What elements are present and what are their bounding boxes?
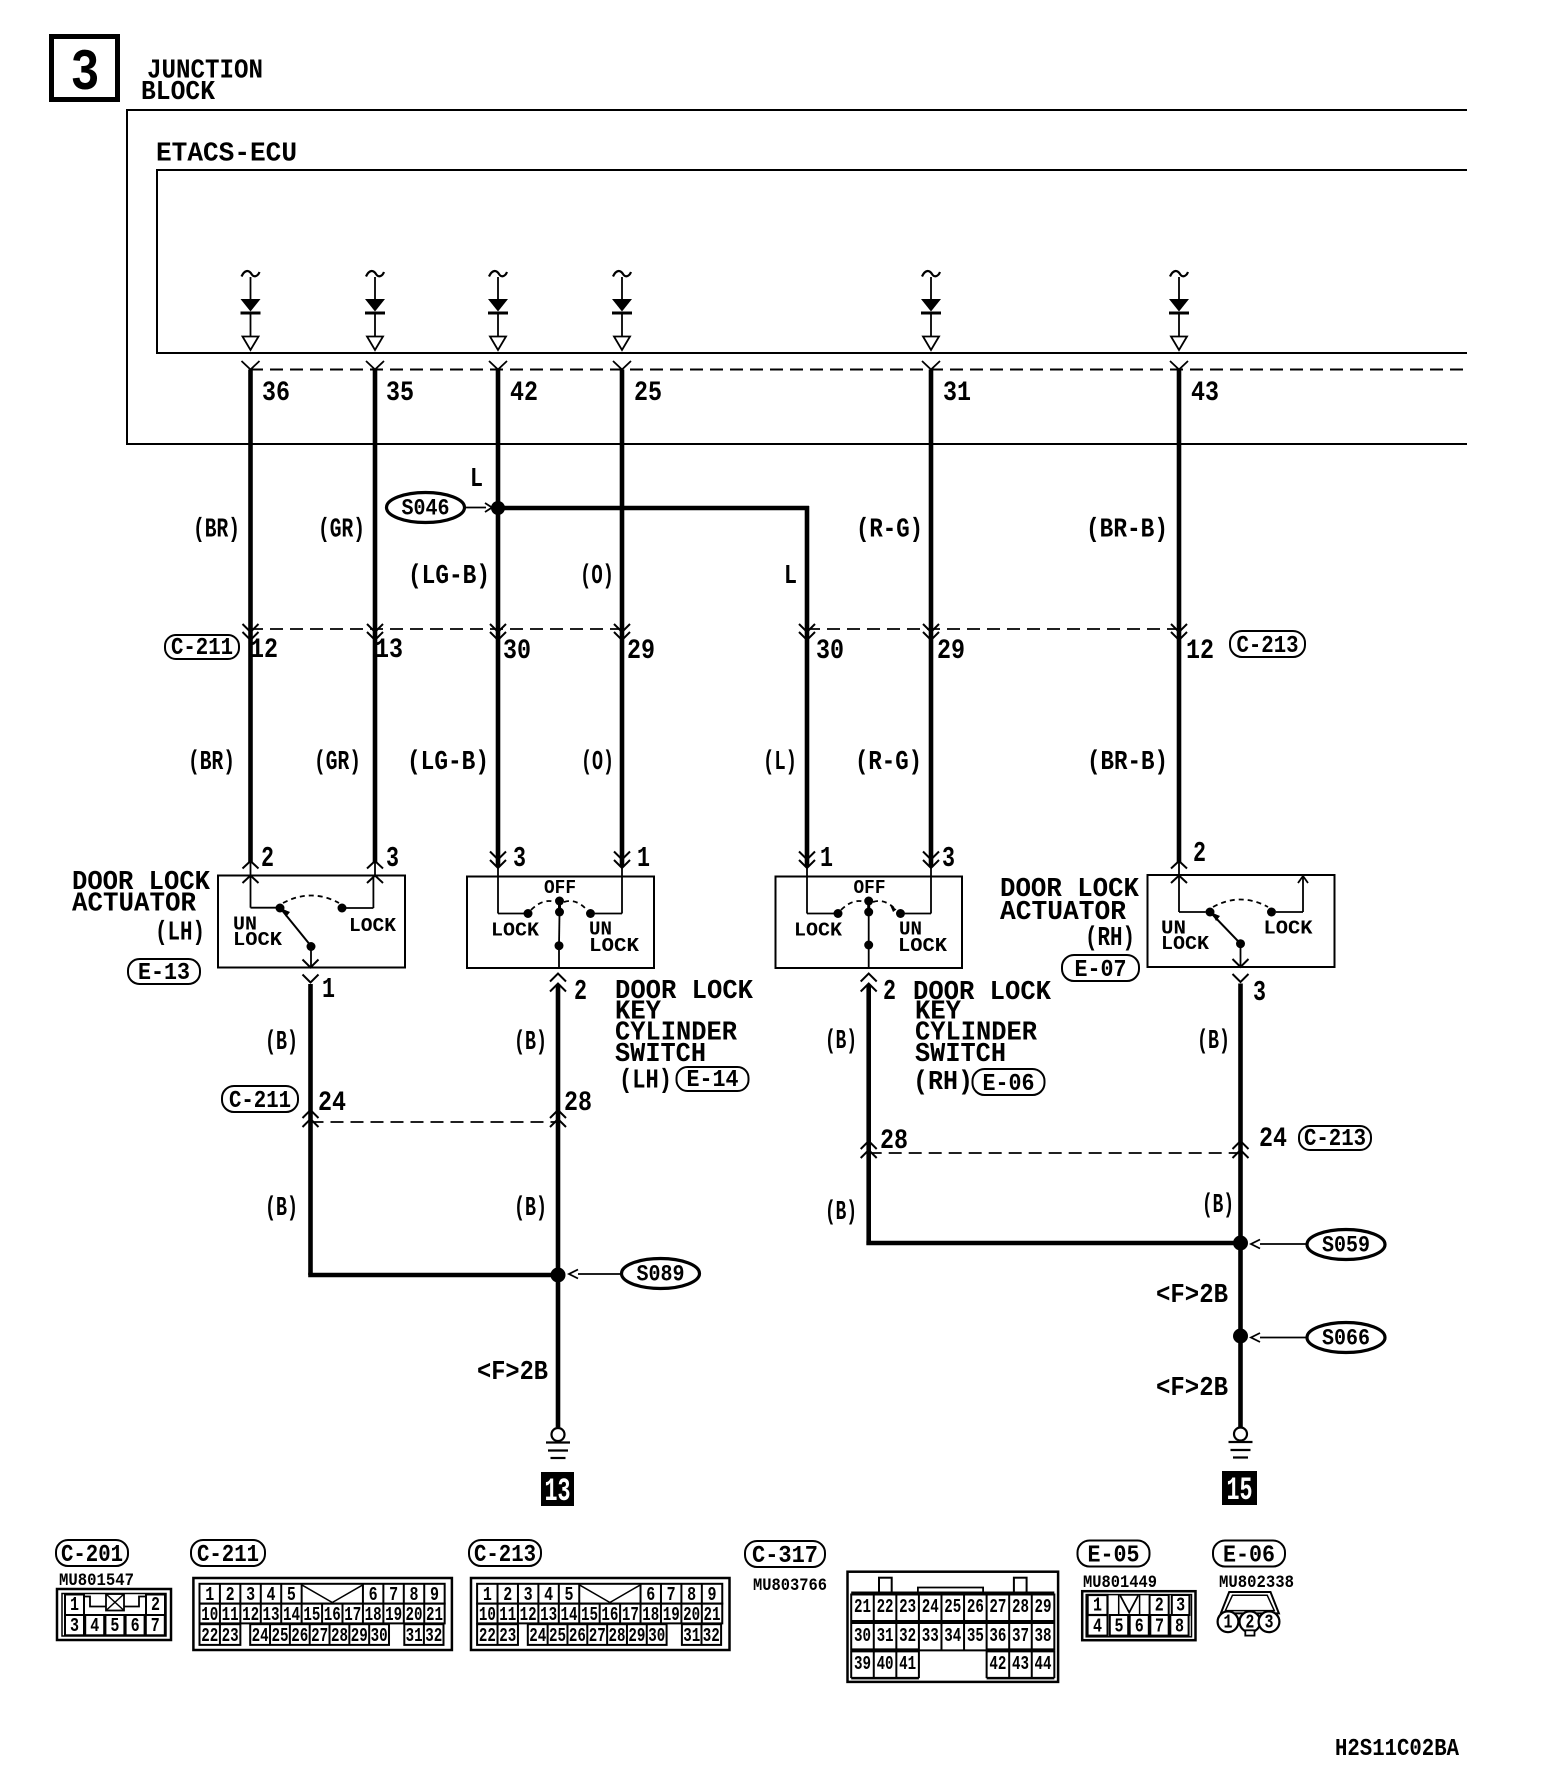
svg-text:(R-G): (R-G) xyxy=(855,748,922,779)
pin 12 label at connector crossing xyxy=(1186,635,1214,667)
svg-text:12: 12 xyxy=(250,634,278,666)
svg-text:4: 4 xyxy=(1093,1616,1102,1638)
wire 42 (LG-B) to LH key cylinder pin 3 xyxy=(489,361,507,877)
svg-text:13: 13 xyxy=(375,634,403,666)
wire LH key cylinder pin 2 (B) xyxy=(550,974,566,1276)
svg-text:LOCK: LOCK xyxy=(1161,934,1209,956)
label MU803766 xyxy=(753,1576,827,1595)
svg-text:ACTUATOR: ACTUATOR xyxy=(72,889,197,920)
svg-text:24: 24 xyxy=(529,1626,546,1648)
svg-text:2: 2 xyxy=(261,842,274,875)
wire LH ground run xyxy=(308,1275,558,1427)
connector label E-06 bottom xyxy=(1213,1541,1285,1570)
pin 3 label RH key cylinder xyxy=(942,842,955,875)
RH actuator switch xyxy=(1179,875,1308,967)
svg-text:C-213: C-213 xyxy=(1304,1125,1366,1152)
svg-text:SWITCH: SWITCH xyxy=(915,1040,1006,1071)
wire RH actuator pin 3 (B) xyxy=(1233,959,1249,1245)
svg-text:E-06: E-06 xyxy=(1223,1542,1275,1569)
svg-text:(LH): (LH) xyxy=(619,1066,672,1097)
svg-text:2: 2 xyxy=(1193,837,1206,870)
svg-text:24: 24 xyxy=(922,1597,939,1619)
label LOCK in LH actuator xyxy=(349,916,396,938)
svg-text:28: 28 xyxy=(564,1087,592,1119)
label (R-G) lower xyxy=(855,748,922,779)
connector label E-13 xyxy=(128,959,200,987)
label DOOR LOCK KEY CYLINDER SWITCH (RH) xyxy=(913,978,1052,1099)
svg-text:23: 23 xyxy=(899,1597,916,1619)
svg-text:3: 3 xyxy=(1253,976,1266,1009)
svg-text:29: 29 xyxy=(1035,1597,1052,1619)
label (BR) upper xyxy=(193,515,240,546)
label (LG-B) lower xyxy=(407,748,489,779)
pin 2 label LH actuator xyxy=(261,842,274,875)
pin 3 label LH actuator xyxy=(386,842,399,875)
label (B) LH-2 xyxy=(514,1028,547,1059)
svg-text:6: 6 xyxy=(131,1616,140,1638)
svg-text:4: 4 xyxy=(90,1616,99,1638)
svg-text:23: 23 xyxy=(222,1626,239,1648)
svg-text:(LG-B): (LG-B) xyxy=(408,562,490,593)
svg-text:1: 1 xyxy=(322,973,335,1006)
label (O) lower xyxy=(581,748,614,779)
svg-text:(BR): (BR) xyxy=(188,748,235,779)
label (L) lower xyxy=(763,748,797,779)
door lock actuator RH box xyxy=(1148,875,1335,967)
splice node S066 dot xyxy=(1233,1329,1248,1344)
svg-text:43: 43 xyxy=(1191,377,1219,409)
diode D2 xyxy=(365,271,385,350)
LH actuator switch xyxy=(251,876,374,968)
pin 25 label xyxy=(634,377,662,409)
pin 28 label lower RH xyxy=(880,1125,908,1157)
svg-text:(B): (B) xyxy=(514,1194,547,1225)
diode D6 xyxy=(1169,271,1189,350)
svg-text:28: 28 xyxy=(880,1125,908,1157)
pin 29 label at connector crossing xyxy=(627,635,655,667)
svg-text:36: 36 xyxy=(989,1626,1006,1648)
label ETACS-ECU xyxy=(156,139,297,170)
diode D5 xyxy=(921,271,941,350)
label DOOR LOCK KEY CYLINDER SWITCH (LH) xyxy=(615,977,754,1097)
label (GR) lower xyxy=(314,748,361,779)
svg-text:(BR-B): (BR-B) xyxy=(1087,748,1168,779)
svg-text:MU802338: MU802338 xyxy=(1219,1573,1294,1592)
svg-text:LOCK: LOCK xyxy=(1264,918,1313,940)
connector label C-213 upper xyxy=(1230,631,1305,660)
svg-text:C-213: C-213 xyxy=(474,1541,536,1568)
svg-text:31: 31 xyxy=(877,1626,894,1648)
svg-text:42: 42 xyxy=(510,377,538,409)
label (BR) lower xyxy=(188,748,235,779)
svg-text:1: 1 xyxy=(70,1595,79,1617)
svg-text:6: 6 xyxy=(1135,1616,1144,1638)
pin 3 label below RH actuator xyxy=(1253,976,1266,1009)
label MU801449 xyxy=(1083,1573,1157,1592)
splice label S066 xyxy=(1251,1323,1385,1353)
svg-text:40: 40 xyxy=(877,1654,894,1676)
pin 42 label xyxy=(510,377,538,409)
svg-text:32: 32 xyxy=(703,1626,720,1648)
svg-text:12: 12 xyxy=(1186,635,1214,667)
splice node S059 dot xyxy=(1233,1236,1248,1251)
pin 43 label xyxy=(1191,377,1219,409)
svg-text:S059: S059 xyxy=(1322,1233,1370,1259)
label (B) RH-1 xyxy=(825,1027,857,1058)
svg-text:2: 2 xyxy=(883,975,896,1008)
svg-text:35: 35 xyxy=(967,1626,984,1648)
svg-text:32: 32 xyxy=(425,1626,442,1648)
wire 43 (BR-B) to RH actuator pin 2 xyxy=(1170,361,1188,883)
pin 24 label lower RH xyxy=(1259,1123,1287,1155)
svg-text:C-211: C-211 xyxy=(229,1087,291,1114)
door lock actuator LH box xyxy=(218,876,405,968)
wire RH ground run xyxy=(866,1243,1240,1427)
svg-text:C-201: C-201 xyxy=(61,1541,123,1568)
pin 30 label at connector crossing xyxy=(503,635,531,667)
svg-text:30: 30 xyxy=(503,635,531,667)
pin 2 label below LH key cylinder xyxy=(574,975,587,1008)
svg-text:25: 25 xyxy=(634,377,662,409)
svg-text:ETACS-ECU: ETACS-ECU xyxy=(156,139,297,170)
svg-text:26: 26 xyxy=(291,1626,308,1648)
svg-text:1: 1 xyxy=(1224,1612,1233,1634)
pin 35 label xyxy=(386,377,414,409)
label (B) RH-3 xyxy=(825,1198,857,1229)
svg-text:MU801547: MU801547 xyxy=(59,1571,134,1590)
pin 30 label at connector crossing xyxy=(816,635,844,667)
connector label C-213 bottom xyxy=(469,1540,541,1569)
pin 28 label lower LH xyxy=(564,1087,592,1119)
wire 36 (BR) to LH actuator pin 2 xyxy=(242,361,260,883)
pin 12 label at connector crossing xyxy=(250,634,278,666)
svg-text:3: 3 xyxy=(513,842,526,875)
svg-text:44: 44 xyxy=(1035,1654,1052,1676)
label LOCK in RH key cylinder xyxy=(794,920,842,942)
svg-text:1: 1 xyxy=(820,842,833,875)
svg-text:22: 22 xyxy=(877,1597,894,1619)
connector C-213 dashed line upper xyxy=(807,628,1179,630)
svg-text:26: 26 xyxy=(569,1626,586,1648)
svg-text:27: 27 xyxy=(589,1626,606,1648)
svg-text:2: 2 xyxy=(574,975,587,1008)
svg-text:2: 2 xyxy=(1155,1595,1164,1617)
svg-text:(BR-B): (BR-B) xyxy=(1086,515,1168,546)
pin 2 label RH actuator xyxy=(1193,837,1206,870)
label L mid xyxy=(784,562,797,593)
connector label C-211 upper xyxy=(165,634,239,661)
pin 29 label at connector crossing xyxy=(937,635,965,667)
splice label S046 xyxy=(387,493,493,523)
svg-text:29: 29 xyxy=(351,1626,368,1648)
label (O) upper xyxy=(580,562,614,593)
label (GR) upper xyxy=(318,515,365,546)
pin 13 label at connector crossing xyxy=(375,634,403,666)
svg-text:27: 27 xyxy=(989,1597,1006,1619)
svg-text:2: 2 xyxy=(151,1595,160,1617)
svg-text:22: 22 xyxy=(479,1626,496,1648)
label LOCK in LH key cylinder xyxy=(491,920,539,942)
svg-text:(B): (B) xyxy=(825,1198,857,1229)
connector C-317 pinout xyxy=(848,1572,1059,1682)
svg-text:1: 1 xyxy=(1093,1595,1102,1617)
index box 3 xyxy=(52,37,118,107)
svg-text:L: L xyxy=(470,465,483,496)
label (BR-B) lower xyxy=(1087,748,1168,779)
drawing number H2S11C02BA xyxy=(1335,1736,1459,1763)
svg-text:27: 27 xyxy=(311,1626,328,1648)
svg-text:30: 30 xyxy=(371,1626,388,1648)
svg-text:<F>2B: <F>2B xyxy=(1156,1374,1228,1405)
svg-text:28: 28 xyxy=(331,1626,348,1648)
connector label E-05 xyxy=(1078,1541,1150,1570)
svg-text:42: 42 xyxy=(989,1654,1006,1676)
connector label E-14 xyxy=(677,1066,749,1093)
svg-text:BLOCK: BLOCK xyxy=(141,78,216,109)
label <F>2B LH xyxy=(477,1358,548,1389)
svg-text:5: 5 xyxy=(1115,1616,1124,1638)
svg-text:C-211: C-211 xyxy=(197,1541,259,1568)
svg-text:(L): (L) xyxy=(763,748,797,779)
pin 1 label LH key cylinder xyxy=(637,842,650,875)
label (R-G) upper xyxy=(856,515,923,546)
svg-text:(B): (B) xyxy=(825,1027,857,1058)
svg-text:39: 39 xyxy=(854,1654,871,1676)
pin 36 label xyxy=(262,377,290,409)
svg-text:<F>2B: <F>2B xyxy=(477,1358,548,1389)
ETACS-ECU box xyxy=(157,170,1467,353)
pin 1 label RH key cylinder xyxy=(820,842,833,875)
svg-text:33: 33 xyxy=(922,1626,939,1648)
splice label S089 xyxy=(569,1259,700,1289)
label (LG-B) upper xyxy=(408,562,490,593)
svg-text:(RH): (RH) xyxy=(1085,924,1135,955)
label UN LOCK in LH actuator xyxy=(233,914,282,951)
svg-text:E-13: E-13 xyxy=(138,959,190,986)
svg-text:E-05: E-05 xyxy=(1088,1542,1140,1569)
svg-text:31: 31 xyxy=(683,1626,700,1648)
door lock key cylinder switch RH box xyxy=(776,877,963,969)
label (B) RH-2 xyxy=(1197,1027,1230,1058)
connector C-201 pinout xyxy=(57,1589,171,1640)
svg-text:30: 30 xyxy=(854,1626,871,1648)
LH key cylinder switch contacts xyxy=(498,877,622,969)
svg-text:(GR): (GR) xyxy=(314,748,361,779)
wire LH actuator pin 1 (B) xyxy=(303,960,319,1276)
svg-text:(B): (B) xyxy=(265,1028,298,1059)
svg-text:C-317: C-317 xyxy=(752,1542,818,1569)
connector C-213 pinout xyxy=(471,1578,730,1650)
svg-text:3: 3 xyxy=(386,842,399,875)
svg-text:OFF: OFF xyxy=(854,878,886,900)
label DOOR LOCK ACTUATOR (LH) xyxy=(72,868,211,949)
svg-text:3: 3 xyxy=(71,40,100,107)
label <F>2B RH upper xyxy=(1156,1281,1228,1312)
svg-text:30: 30 xyxy=(648,1626,665,1648)
svg-text:29: 29 xyxy=(627,635,655,667)
svg-text:8: 8 xyxy=(1175,1616,1184,1638)
svg-text:35: 35 xyxy=(386,377,414,409)
label JUNCTION BLOCK xyxy=(141,56,263,108)
svg-text:43: 43 xyxy=(1012,1654,1029,1676)
svg-text:(R-G): (R-G) xyxy=(856,515,923,546)
svg-text:LOCK: LOCK xyxy=(589,936,639,958)
svg-text:3: 3 xyxy=(1265,1612,1274,1634)
svg-text:C-213: C-213 xyxy=(1237,632,1299,659)
svg-text:(O): (O) xyxy=(581,748,614,779)
wire 25 (O) to LH key cylinder pin 1 xyxy=(613,361,631,877)
svg-text:MU801449: MU801449 xyxy=(1083,1573,1157,1592)
svg-text:25: 25 xyxy=(271,1626,288,1648)
RH key cylinder switch contacts xyxy=(807,877,931,969)
svg-text:LOCK: LOCK xyxy=(233,930,282,952)
svg-text:37: 37 xyxy=(1012,1626,1029,1648)
svg-text:(RH): (RH) xyxy=(913,1068,973,1099)
svg-text:<F>2B: <F>2B xyxy=(1156,1281,1228,1312)
label (B) LH-3 xyxy=(265,1194,298,1225)
label MU802338 xyxy=(1219,1573,1294,1592)
svg-text:3: 3 xyxy=(1176,1595,1185,1617)
connector label C-201 xyxy=(56,1540,128,1569)
connector C-213 dashed line lower xyxy=(869,1152,1241,1154)
svg-text:(LG-B): (LG-B) xyxy=(407,748,489,779)
svg-text:(B): (B) xyxy=(265,1194,298,1225)
ETACS-ECU output bus (dashed) xyxy=(250,369,1467,371)
ground G2 xyxy=(1229,1428,1253,1458)
svg-text:(B): (B) xyxy=(1202,1191,1234,1222)
connector C-211 dashed line upper xyxy=(250,628,622,630)
svg-text:(O): (O) xyxy=(580,562,614,593)
svg-text:3: 3 xyxy=(70,1616,79,1638)
svg-text:7: 7 xyxy=(151,1616,160,1638)
svg-text:25: 25 xyxy=(549,1626,566,1648)
svg-text:3: 3 xyxy=(942,842,955,875)
svg-text:L: L xyxy=(784,562,797,593)
label DOOR LOCK ACTUATOR (RH) xyxy=(1000,875,1140,955)
svg-text:(B): (B) xyxy=(514,1028,547,1059)
connector C-211 pinout xyxy=(193,1578,452,1650)
svg-text:34: 34 xyxy=(944,1626,961,1648)
pin 3 label LH key cylinder xyxy=(513,842,526,875)
pin 31 label xyxy=(943,377,971,409)
svg-text:LOCK: LOCK xyxy=(794,920,842,942)
door lock key cylinder switch LH box xyxy=(467,877,654,969)
connector label C-317 xyxy=(745,1541,825,1570)
connector label E-07 xyxy=(1062,955,1139,984)
ground G1 xyxy=(546,1428,570,1458)
wire L from S046 to RH key cylinder pin 1 xyxy=(496,506,815,877)
svg-text:23: 23 xyxy=(499,1626,516,1648)
svg-text:E-14: E-14 xyxy=(687,1066,739,1093)
connector E-06 pinout xyxy=(1218,1592,1280,1636)
label (B) RH-4 xyxy=(1202,1191,1234,1222)
pin 2 label below RH key cylinder xyxy=(883,975,896,1008)
svg-text:28: 28 xyxy=(1012,1597,1029,1619)
splice node S046 junction dot xyxy=(491,501,505,515)
svg-text:31: 31 xyxy=(943,377,971,409)
svg-text:S066: S066 xyxy=(1322,1326,1370,1352)
splice node S089 dot xyxy=(551,1268,566,1283)
svg-text:S089: S089 xyxy=(637,1262,685,1288)
connector label C-211 lower xyxy=(222,1086,298,1115)
wire RH key cylinder pin 2 (B) xyxy=(861,974,877,1246)
label UN LOCK in RH actuator xyxy=(1161,918,1209,955)
svg-text:29: 29 xyxy=(937,635,965,667)
ground ref box 15 xyxy=(1223,1472,1256,1510)
svg-text:MU803766: MU803766 xyxy=(753,1576,827,1595)
svg-text:LOCK: LOCK xyxy=(898,936,947,958)
ground ref box 13 xyxy=(542,1473,573,1511)
svg-text:36: 36 xyxy=(262,377,290,409)
svg-text:32: 32 xyxy=(899,1626,916,1648)
svg-text:1: 1 xyxy=(637,842,650,875)
label OFF LH key cylinder xyxy=(544,878,576,900)
junction block box xyxy=(127,110,1467,444)
label OFF RH key cylinder xyxy=(854,878,886,900)
svg-text:(B): (B) xyxy=(1197,1027,1230,1058)
svg-text:26: 26 xyxy=(967,1597,984,1619)
svg-text:S046: S046 xyxy=(402,496,450,522)
svg-text:LOCK: LOCK xyxy=(491,920,539,942)
label MU801547 xyxy=(59,1571,134,1590)
label LOCK in RH actuator xyxy=(1264,918,1313,940)
svg-text:(LH): (LH) xyxy=(155,918,205,949)
wire 31 (R-G) to RH key cylinder pin 3 xyxy=(922,361,940,877)
label UN LOCK in LH key cylinder xyxy=(589,919,639,957)
label (B) LH-1 xyxy=(265,1028,298,1059)
svg-text:38: 38 xyxy=(1035,1626,1052,1648)
diode D4 xyxy=(612,271,632,350)
svg-text:H2S11C02BA: H2S11C02BA xyxy=(1335,1736,1459,1763)
svg-text:(BR): (BR) xyxy=(193,515,240,546)
svg-text:7: 7 xyxy=(1155,1616,1164,1638)
svg-text:41: 41 xyxy=(899,1654,916,1676)
svg-text:21: 21 xyxy=(854,1597,871,1619)
label L at splice S046 xyxy=(470,465,483,496)
svg-text:15: 15 xyxy=(1227,1472,1253,1510)
connector E-05 pinout xyxy=(1082,1591,1195,1640)
svg-text:13: 13 xyxy=(545,1473,571,1511)
svg-text:OFF: OFF xyxy=(544,878,576,900)
connector label C-211 bottom xyxy=(191,1540,265,1569)
svg-text:25: 25 xyxy=(944,1597,961,1619)
pin 24 label lower LH xyxy=(318,1087,346,1119)
svg-text:28: 28 xyxy=(609,1626,626,1648)
svg-text:5: 5 xyxy=(110,1616,119,1638)
svg-text:29: 29 xyxy=(628,1626,645,1648)
svg-text:22: 22 xyxy=(201,1626,218,1648)
svg-text:C-211: C-211 xyxy=(171,634,233,661)
svg-text:24: 24 xyxy=(318,1087,346,1119)
wire 35 (GR) to LH actuator pin 3 xyxy=(366,361,384,883)
label (B) LH-4 xyxy=(514,1194,547,1225)
diode D1 xyxy=(241,271,261,350)
splice label S059 xyxy=(1251,1230,1385,1260)
svg-text:24: 24 xyxy=(252,1626,269,1648)
svg-text:LOCK: LOCK xyxy=(349,916,396,938)
svg-text:(GR): (GR) xyxy=(318,515,365,546)
label (BR-B) upper xyxy=(1086,515,1168,546)
connector label C-213 lower xyxy=(1299,1125,1371,1152)
label <F>2B RH lower xyxy=(1156,1374,1228,1405)
pin 1 label below LH actuator xyxy=(322,973,335,1006)
label UN LOCK in RH key cylinder xyxy=(898,919,947,957)
svg-text:24: 24 xyxy=(1259,1123,1287,1155)
svg-text:30: 30 xyxy=(816,635,844,667)
diode D3 xyxy=(488,271,508,350)
svg-text:31: 31 xyxy=(406,1626,423,1648)
svg-text:E-06: E-06 xyxy=(983,1070,1035,1097)
